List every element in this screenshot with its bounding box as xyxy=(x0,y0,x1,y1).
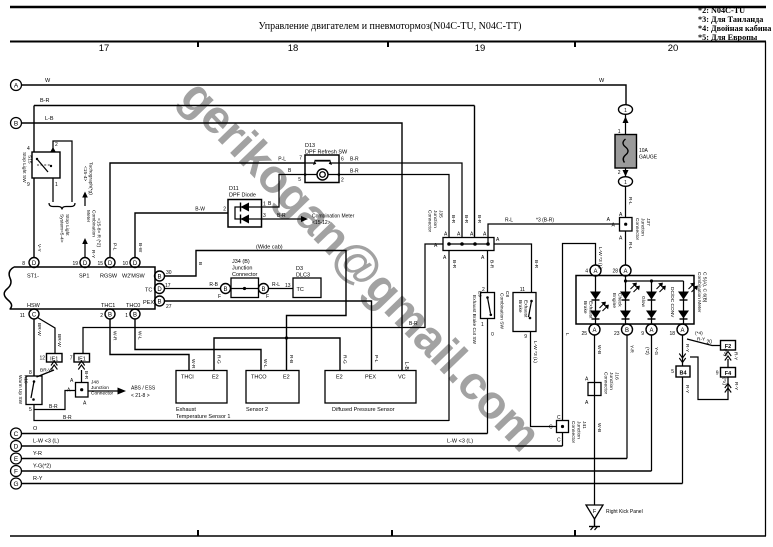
wire THC0 W-L to sensor2 xyxy=(135,319,268,371)
svg-text:R-G: R-G xyxy=(342,355,348,364)
LED exhaust brake column xyxy=(582,276,609,324)
svg-text:11: 11 xyxy=(20,313,25,319)
svg-text:27: 27 xyxy=(166,304,172,310)
svg-text:Glow: Glow xyxy=(640,296,646,307)
svg-text:B4: B4 xyxy=(679,371,687,377)
svg-text:Brake: Brake xyxy=(582,301,588,314)
svg-text:2: 2 xyxy=(482,287,485,293)
svg-text:9: 9 xyxy=(27,182,30,188)
svg-text:V-Y: V-Y xyxy=(36,244,42,253)
svg-text:(*x): (*x) xyxy=(721,378,727,386)
svg-text:Combination Meter: Combination Meter xyxy=(312,214,355,220)
wire Y-R meter to bus E xyxy=(627,335,635,459)
diode D11 DPF Diode xyxy=(228,186,262,227)
svg-text:B-W: B-W xyxy=(137,243,143,253)
svg-text:R-Y: R-Y xyxy=(684,344,690,353)
svg-text:*3 (B-R): *3 (B-R) xyxy=(536,218,554,224)
svg-text:5: 5 xyxy=(671,369,674,375)
wire stop light pin2 to brace xyxy=(50,141,72,202)
frame top rule xyxy=(10,6,766,9)
svg-text:W-L: W-L xyxy=(137,331,143,340)
svg-text:BR-W: BR-W xyxy=(36,323,42,336)
svg-text:2: 2 xyxy=(55,142,58,148)
svg-text:B: B xyxy=(14,121,18,128)
svg-text:D: D xyxy=(108,261,113,267)
sensor Diffused Pressure Sensor xyxy=(325,371,416,414)
svg-text:System<5-4>: System<5-4> xyxy=(59,214,65,243)
svg-text:A: A xyxy=(593,269,597,275)
svg-text:DLC3: DLC3 xyxy=(296,273,310,279)
svg-text:Y-R: Y-R xyxy=(629,345,635,353)
arrow ABS/ESS from J48 xyxy=(88,386,156,400)
svg-text:5: 5 xyxy=(29,407,32,413)
svg-text:Combination SW: Combination SW xyxy=(499,293,505,329)
svg-text:PEX: PEX xyxy=(143,300,154,306)
svg-text:Управление двигателем и пневмо: Управление двигателем и пневмотормоз(N04… xyxy=(259,21,522,32)
wire stop light pin1 down xyxy=(52,178,54,202)
switch E9 Exhaust Brake Cut SW xyxy=(471,287,495,345)
svg-text:9: 9 xyxy=(641,331,644,337)
wire TC R-B to J34 xyxy=(165,282,221,289)
svg-text:C: C xyxy=(14,431,19,438)
svg-text:Junction: Junction xyxy=(576,421,582,439)
svg-text:17: 17 xyxy=(99,43,110,54)
svg-text:20: 20 xyxy=(668,43,679,54)
svg-text:A: A xyxy=(585,400,589,406)
meter pin 28 xyxy=(612,265,631,276)
svg-text:Warm Up SW: Warm Up SW xyxy=(17,375,23,405)
pin HSW xyxy=(20,303,41,319)
svg-text:BR-W: BR-W xyxy=(56,334,62,347)
svg-text:11: 11 xyxy=(520,287,525,293)
pin RGSW xyxy=(97,258,117,280)
column numbers xyxy=(99,43,679,54)
frame bottom rule xyxy=(10,535,766,537)
LED DC/DC CONV column xyxy=(669,281,698,324)
svg-text:W-R: W-R xyxy=(112,331,118,341)
svg-text:W-L: W-L xyxy=(262,359,268,368)
wire meter pin18 to B4 chevron xyxy=(679,335,690,366)
svg-text:W-B: W-B xyxy=(596,345,602,354)
wire meter pin18 diagonal to F2 xyxy=(687,331,721,346)
svg-text:RGSW: RGSW xyxy=(100,274,118,280)
svg-text:*3: Для Таиланда: *3: Для Таиланда xyxy=(698,15,763,24)
junction connector J37 xyxy=(612,212,652,242)
fuse 10A GAUGE xyxy=(615,105,658,187)
wire W-B meter to ground xyxy=(595,335,603,505)
svg-text:B: B xyxy=(268,201,272,207)
svg-text:B-R: B-R xyxy=(63,415,72,421)
node F xyxy=(11,466,22,477)
svg-text:Check: Check xyxy=(617,293,623,307)
frame second rule xyxy=(10,41,766,43)
pin W2'MSW xyxy=(122,258,146,280)
node E xyxy=(11,453,22,464)
svg-text:B: B xyxy=(625,328,629,334)
wire warm up SW B-R to J35 drop xyxy=(34,404,449,421)
svg-text:A: A xyxy=(680,328,684,334)
svg-text:Right Kick Panel: Right Kick Panel xyxy=(606,509,643,515)
wire B-R drop to stop light SW xyxy=(33,106,35,153)
svg-text:O: O xyxy=(489,332,495,336)
wire C8 pin9 L-W to J41 xyxy=(531,332,557,427)
svg-text:THC0: THC0 xyxy=(126,303,140,309)
svg-text:28: 28 xyxy=(612,269,618,275)
svg-text:B-W: B-W xyxy=(195,207,205,213)
svg-text:Junction: Junction xyxy=(432,210,438,228)
ECU engine control block xyxy=(4,267,155,309)
watermark xyxy=(170,68,626,538)
svg-text:L-B: L-B xyxy=(403,362,409,370)
svg-text:VC: VC xyxy=(398,375,406,381)
svg-text:18: 18 xyxy=(288,43,299,54)
wire Y-R bus E xyxy=(22,451,628,459)
svg-text:A: A xyxy=(83,401,87,407)
svg-text:B: B xyxy=(288,168,292,174)
node G xyxy=(11,478,22,489)
svg-text:B-R: B-R xyxy=(533,260,539,269)
pin 30 xyxy=(155,270,172,281)
wire R-Y bus G xyxy=(22,476,683,484)
wire J35 left to IE1 B-R xyxy=(83,244,443,354)
svg-text:G: G xyxy=(13,481,18,488)
svg-text:A: A xyxy=(444,232,448,238)
connector IE1 no2 xyxy=(70,354,90,383)
svg-text:B-R: B-R xyxy=(450,215,456,224)
svg-text:A: A xyxy=(483,232,487,238)
svg-text:R-B: R-B xyxy=(209,282,218,288)
svg-text:30: 30 xyxy=(166,270,172,276)
svg-text:A: A xyxy=(607,217,611,223)
svg-text:P-L: P-L xyxy=(373,355,379,363)
wire B-R bus drop to J35 xyxy=(475,106,483,238)
svg-text:E2: E2 xyxy=(336,375,343,381)
svg-text:8: 8 xyxy=(29,370,32,376)
svg-text:4: 4 xyxy=(585,269,588,275)
svg-text:Connector: Connector xyxy=(570,421,576,444)
svg-text:F: F xyxy=(593,509,597,515)
svg-text:<15-4>: <15-4> xyxy=(82,166,88,181)
meter pin 18 xyxy=(669,324,688,337)
svg-text:L-B: L-B xyxy=(45,116,54,122)
svg-text:Brake: Brake xyxy=(517,300,523,313)
svg-text:B: B xyxy=(261,287,265,293)
wire L-B bus B xyxy=(22,116,410,371)
svg-text:J16: J16 xyxy=(614,372,620,380)
svg-text:Junction: Junction xyxy=(640,218,646,236)
meter pin 9 xyxy=(641,324,657,337)
meter pin 4 xyxy=(585,265,601,276)
svg-text:(*x): (*x) xyxy=(722,349,728,357)
svg-text:F: F xyxy=(14,469,18,476)
svg-text:B: B xyxy=(108,313,112,319)
svg-text:R-Y: R-Y xyxy=(733,352,739,361)
arrow to combination meter R-Y from SP1 xyxy=(82,210,101,259)
svg-text:Connector: Connector xyxy=(603,372,609,395)
svg-text:THCI: THCI xyxy=(181,375,194,381)
svg-text:A: A xyxy=(457,232,461,238)
svg-text:A: A xyxy=(14,83,19,90)
svg-text:Junction: Junction xyxy=(608,372,614,390)
wire V-Y to ST1- xyxy=(34,178,42,258)
svg-text:DPF Diode: DPF Diode xyxy=(229,193,256,199)
svg-text:W: W xyxy=(45,78,51,84)
svg-text:ABS / ESS: ABS / ESS xyxy=(131,386,156,392)
svg-text:C8: C8 xyxy=(504,291,510,297)
wire D11 pin3 B-R arrow to combination meter xyxy=(262,213,355,226)
wire E9 pin1 O to bus C xyxy=(488,319,496,434)
node B xyxy=(11,118,22,129)
junction connector J35 xyxy=(427,210,501,261)
junction connector J48 xyxy=(67,378,114,407)
svg-text:J48: J48 xyxy=(91,380,99,386)
svg-text:A: A xyxy=(481,255,485,261)
svg-text:P-L: P-L xyxy=(112,243,118,251)
svg-text:4: 4 xyxy=(27,146,30,152)
switch C8 Combination SW exhaust brake xyxy=(499,287,537,340)
ground right kick panel xyxy=(586,505,643,530)
svg-text:J34 (B): J34 (B) xyxy=(232,259,250,265)
svg-text:20: 20 xyxy=(706,340,712,346)
wire J35 down to E9 pin 2 xyxy=(488,251,495,293)
svg-text:10A: 10A xyxy=(639,148,649,154)
svg-text:1: 1 xyxy=(624,108,627,114)
svg-text:R-Y: R-Y xyxy=(684,385,690,394)
svg-text:<15-12>: <15-12> xyxy=(312,220,331,226)
svg-text:Y-R: Y-R xyxy=(33,451,42,457)
svg-text:P-L: P-L xyxy=(278,157,286,163)
svg-text:BR-W: BR-W xyxy=(40,368,53,374)
svg-text:F: F xyxy=(218,294,221,300)
svg-text:1: 1 xyxy=(481,322,484,328)
svg-text:Junction: Junction xyxy=(91,385,109,391)
wire R-L J37 to meter pin28 xyxy=(626,231,634,265)
pin TC 17 xyxy=(145,283,171,294)
svg-text:A: A xyxy=(619,236,623,242)
switch A16 Warm Up SW xyxy=(17,370,42,413)
svg-text:C: C xyxy=(32,313,37,319)
svg-text:15: 15 xyxy=(97,261,103,267)
svg-text:13: 13 xyxy=(285,283,291,289)
svg-text:B-R: B-R xyxy=(40,98,50,104)
wire R-L to J37 xyxy=(488,217,620,244)
svg-text:3: 3 xyxy=(263,213,266,219)
svg-text:A: A xyxy=(623,269,627,275)
fuse block F4 xyxy=(716,368,736,378)
svg-text:9: 9 xyxy=(716,371,719,377)
wire W bus A xyxy=(22,78,627,105)
svg-text:A: A xyxy=(585,377,589,383)
svg-text:Exhaust: Exhaust xyxy=(588,301,594,319)
svg-text:E: E xyxy=(14,456,19,463)
svg-text:B-R: B-R xyxy=(350,169,359,175)
brace stop light system xyxy=(49,203,75,243)
wire J41 to bus D xyxy=(562,433,564,447)
svg-text:Exhaust: Exhaust xyxy=(523,300,529,318)
svg-text:D: D xyxy=(157,287,162,293)
svg-text:L: L xyxy=(564,333,570,336)
svg-text:E2: E2 xyxy=(283,375,290,381)
svg-text:B-R: B-R xyxy=(49,404,58,410)
sensor Exhaust Temperature Sensor 1 xyxy=(176,371,230,421)
wire Y-G meter to bus F xyxy=(644,335,659,471)
wire J35 to C8 pin 11 xyxy=(494,244,539,293)
svg-text:<15-8> R (*2): <15-8> R (*2) xyxy=(96,218,102,247)
svg-text:D: D xyxy=(14,444,19,451)
svg-text:R-L: R-L xyxy=(627,197,633,205)
wire B-W W2'MSW to D11 xyxy=(135,207,228,258)
svg-text:D: D xyxy=(133,261,138,267)
svg-text:8: 8 xyxy=(22,261,25,267)
svg-text:TC: TC xyxy=(145,288,152,294)
wire chevron F2 to F4 xyxy=(722,349,739,368)
svg-text:*4: Двойная кабина: *4: Двойная кабина xyxy=(698,24,771,33)
svg-text:A: A xyxy=(592,328,596,334)
svg-text:Connector: Connector xyxy=(232,272,258,278)
svg-text:A: A xyxy=(649,328,653,334)
svg-text:Y-G: Y-G xyxy=(653,347,659,355)
svg-text:9: 9 xyxy=(524,334,527,340)
svg-text:J37: J37 xyxy=(645,218,651,226)
svg-text:D: D xyxy=(32,261,37,267)
node D xyxy=(11,441,22,452)
wire L to J41 and meter pin4 xyxy=(563,244,604,421)
svg-text:F4: F4 xyxy=(725,371,732,377)
wire pin30 wide cab E2 net xyxy=(165,245,348,371)
svg-text:19: 19 xyxy=(475,43,486,54)
svg-text:F: F xyxy=(266,294,269,300)
svg-text:*2: N04C-TU: *2: N04C-TU xyxy=(698,6,745,15)
svg-text:2: 2 xyxy=(100,313,103,319)
pin THC0 xyxy=(125,303,140,319)
svg-text:C: C xyxy=(557,415,561,421)
svg-text:D: D xyxy=(83,261,88,267)
svg-text:R-L: R-L xyxy=(505,218,513,224)
svg-text:Temperature Sensor 1: Temperature Sensor 1 xyxy=(176,414,230,420)
svg-text:25: 25 xyxy=(581,331,587,337)
LED check engine column xyxy=(611,276,640,324)
svg-text:Stop Light SW: Stop Light SW xyxy=(21,152,27,183)
svg-text:2: 2 xyxy=(618,170,621,176)
svg-text:7: 7 xyxy=(299,156,302,162)
wire HSW BR-W down xyxy=(34,319,42,376)
svg-text:W-R: W-R xyxy=(190,359,196,369)
wire PEX P-L to pressure sensor xyxy=(165,301,380,371)
svg-text:PEX: PEX xyxy=(365,375,376,381)
svg-text:Combination Meter: Combination Meter xyxy=(696,272,702,313)
pin PEX 27 xyxy=(143,296,172,310)
svg-text:Y-G(*2): Y-G(*2) xyxy=(33,464,51,470)
svg-text:Tachograph(*g): Tachograph(*g) xyxy=(88,162,94,195)
svg-text:ST1-: ST1- xyxy=(27,274,39,280)
switch S15 Stop Light SW xyxy=(21,142,60,188)
notes top right xyxy=(698,6,771,42)
svg-text:B: B xyxy=(157,300,161,306)
wire P-L RGSW to D13 xyxy=(110,156,305,258)
svg-text:E2: E2 xyxy=(212,375,219,381)
svg-text:18: 18 xyxy=(669,331,675,337)
svg-text:B: B xyxy=(223,287,227,293)
svg-text:R-Y: R-Y xyxy=(733,382,739,391)
svg-text:W2'MSW: W2'MSW xyxy=(122,274,146,280)
svg-text:R-Y: R-Y xyxy=(697,337,706,343)
svg-text:L-W *3 (L): L-W *3 (L) xyxy=(532,341,538,363)
connector D3 DLC3 xyxy=(293,266,321,298)
arrow to tachograph xyxy=(82,162,94,206)
svg-text:A: A xyxy=(470,232,474,238)
svg-text:1: 1 xyxy=(624,180,627,186)
column ruler ticks xyxy=(198,42,575,48)
svg-text:DC/DC CONV: DC/DC CONV xyxy=(669,287,675,318)
svg-text:Junction: Junction xyxy=(232,266,253,272)
svg-text:2: 2 xyxy=(341,178,344,184)
svg-text:Connector: Connector xyxy=(634,218,640,241)
wire HSW diagonal to IE1 xyxy=(38,318,63,354)
wire Y-G bus F xyxy=(22,464,652,472)
svg-text:1: 1 xyxy=(125,313,128,319)
svg-text:C: C xyxy=(557,438,561,444)
svg-text:R-L: R-L xyxy=(272,282,280,288)
svg-text:Sensor 2: Sensor 2 xyxy=(246,407,268,413)
svg-text:(Wide cab): (Wide cab) xyxy=(256,245,283,251)
svg-text:B: B xyxy=(197,262,203,265)
svg-text:L-W <3 (L): L-W <3 (L) xyxy=(447,439,473,445)
svg-text:B-R: B-R xyxy=(83,371,89,380)
wire D11 pin1 B to D13 pin5 xyxy=(262,168,306,208)
svg-text:Meter: Meter xyxy=(85,210,91,223)
pin SP1 xyxy=(72,258,90,280)
wire THC1 W-R to sensor1 xyxy=(110,319,196,371)
svg-text:A16: A16 xyxy=(23,375,29,384)
svg-text:C: C xyxy=(549,425,553,431)
svg-text:B: B xyxy=(157,275,161,281)
svg-text:R-B: R-B xyxy=(288,355,294,363)
svg-text:B-R: B-R xyxy=(350,157,359,163)
svg-text:A: A xyxy=(70,378,74,384)
frame right border xyxy=(765,42,767,537)
svg-text:A: A xyxy=(443,255,447,261)
svg-text:SP1: SP1 xyxy=(79,274,89,280)
svg-text:W: W xyxy=(599,78,605,84)
wire O bus C xyxy=(22,426,488,434)
svg-text:J35: J35 xyxy=(438,210,444,218)
wire D13 pin2 B-R to J35 xyxy=(339,169,456,238)
junction connector J41 xyxy=(549,415,587,444)
svg-text:L-W <3 (L): L-W <3 (L) xyxy=(33,439,59,445)
svg-text:2: 2 xyxy=(223,207,226,213)
node A xyxy=(11,80,22,91)
wire R-L fuse to J37 xyxy=(626,186,634,217)
svg-text:J41: J41 xyxy=(581,421,587,429)
pin ST1- xyxy=(22,258,39,280)
wire R-L to DLC3 xyxy=(269,282,294,289)
svg-text:R-L: R-L xyxy=(627,242,633,250)
svg-text:1: 1 xyxy=(55,182,58,188)
wire J48 left to warm up SW net xyxy=(34,391,76,410)
wire J35 down left B-R long xyxy=(449,251,457,422)
svg-text:THCO: THCO xyxy=(251,375,267,381)
svg-text:Stop Light: Stop Light xyxy=(64,214,70,236)
svg-text:Engine: Engine xyxy=(611,293,617,308)
svg-text:C 5(A), C 6(B): C 5(A), C 6(B) xyxy=(702,272,708,303)
wire F4 loop to B4 xyxy=(690,357,739,400)
svg-text:B-R: B-R xyxy=(489,260,495,269)
svg-text:B-R: B-R xyxy=(409,321,418,327)
junction connector J34 xyxy=(218,259,269,300)
sensor 2 xyxy=(246,371,299,414)
svg-text:W-B: W-B xyxy=(596,423,602,432)
svg-text:R-G: R-G xyxy=(216,355,222,364)
